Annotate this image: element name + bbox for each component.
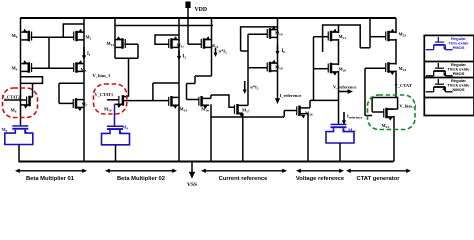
svg-text:Beta Multiplier 02: Beta Multiplier 02 xyxy=(117,176,165,182)
svg-text:VSS: VSS xyxy=(187,182,197,186)
svg-text:PMOS: PMOS xyxy=(453,45,465,50)
svg-text:CTAT generator: CTAT generator xyxy=(357,176,401,182)
svg-text:I2: I2 xyxy=(183,55,187,60)
svg-text:V_bias_1: V_bias_1 xyxy=(93,73,112,78)
svg-text:I_reference: I_reference xyxy=(280,93,302,98)
svg-text:V_CTAT1: V_CTAT1 xyxy=(95,92,114,97)
svg-text:Current reference: Current reference xyxy=(219,176,268,182)
svg-text:VDD: VDD xyxy=(195,7,208,13)
svg-text:V_bias_1: V_bias_1 xyxy=(400,103,417,108)
svg-text:V_reference: V_reference xyxy=(333,85,356,90)
svg-text:I0: I0 xyxy=(282,49,286,54)
svg-text:I1: I1 xyxy=(87,52,91,57)
svg-text:V_CTAT: V_CTAT xyxy=(395,83,412,88)
svg-text:NMOS: NMOS xyxy=(453,87,465,92)
svg-text:V_CTAT2: V_CTAT2 xyxy=(2,95,21,100)
svg-text:PMOS: PMOS xyxy=(453,71,465,76)
svg-text:Beta Multiplier 01: Beta Multiplier 01 xyxy=(26,176,75,182)
svg-text:Voltage reference: Voltage reference xyxy=(296,176,345,182)
